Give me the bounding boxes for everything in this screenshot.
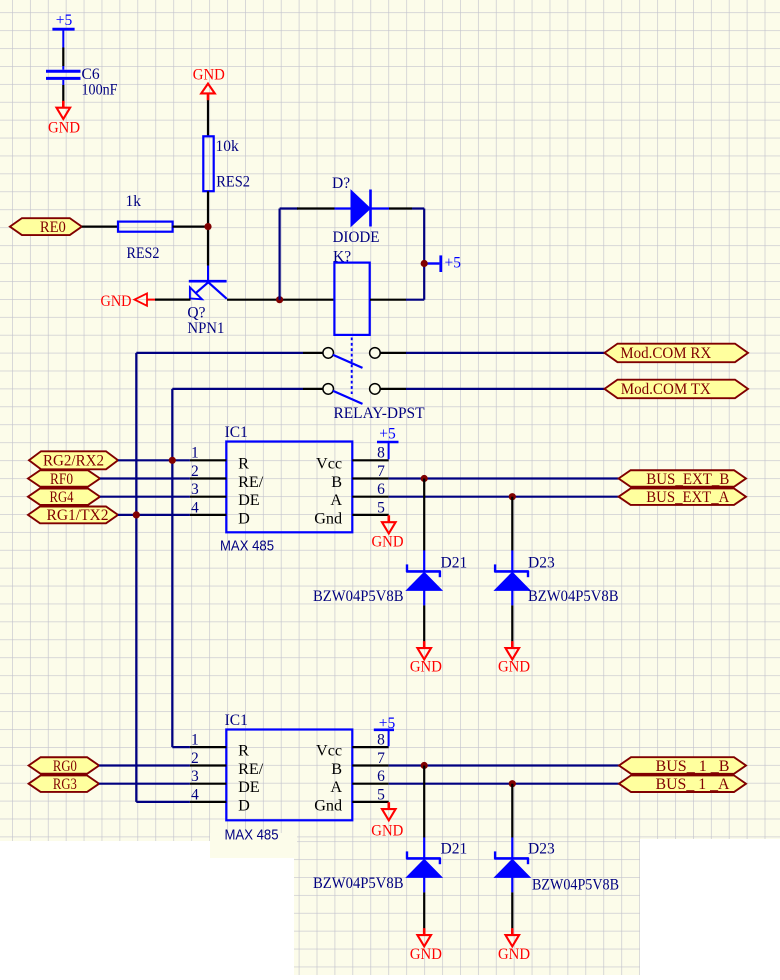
- svg-text:NPN1: NPN1: [187, 320, 224, 337]
- svg-text:D23: D23: [528, 554, 555, 571]
- svg-text:RE/: RE/: [238, 473, 264, 491]
- svg-text:3: 3: [191, 768, 199, 785]
- svg-text:B: B: [331, 473, 342, 491]
- svg-text:D: D: [238, 509, 250, 527]
- svg-text:Gnd: Gnd: [314, 509, 342, 527]
- svg-text:GND: GND: [101, 293, 132, 310]
- svg-text:Mod.COM TX: Mod.COM TX: [621, 381, 711, 398]
- svg-text:IC1: IC1: [225, 424, 248, 441]
- svg-text:D21: D21: [441, 554, 468, 571]
- svg-text:1: 1: [191, 732, 199, 749]
- svg-text:GND: GND: [410, 946, 442, 963]
- svg-text:GND: GND: [498, 946, 530, 963]
- svg-text:A: A: [330, 778, 342, 796]
- svg-text:D?: D?: [332, 175, 350, 192]
- svg-text:C6: C6: [82, 66, 100, 83]
- svg-text:BZW04P5V8B: BZW04P5V8B: [313, 875, 404, 892]
- svg-text:RES2: RES2: [216, 173, 250, 190]
- svg-text:Gnd: Gnd: [314, 796, 342, 814]
- svg-text:Mod.COM RX: Mod.COM RX: [620, 345, 711, 362]
- svg-text:BZW04P5V8B: BZW04P5V8B: [313, 588, 404, 605]
- svg-text:RG0: RG0: [53, 758, 77, 775]
- svg-text:BZW04P5V8B: BZW04P5V8B: [532, 876, 619, 893]
- svg-text:MAX 485: MAX 485: [225, 828, 279, 844]
- svg-text:5: 5: [377, 499, 385, 516]
- svg-text:DIODE: DIODE: [333, 229, 380, 246]
- svg-text:RES2: RES2: [127, 245, 160, 262]
- svg-text:4: 4: [191, 499, 199, 516]
- svg-text:RF0: RF0: [50, 471, 73, 488]
- svg-text:D: D: [238, 796, 250, 814]
- svg-text:GND: GND: [498, 659, 530, 676]
- svg-text:6: 6: [377, 481, 385, 498]
- svg-text:GND: GND: [193, 67, 225, 84]
- svg-text:BUS_EXT_B: BUS_EXT_B: [646, 471, 729, 488]
- svg-text:IC1: IC1: [225, 712, 248, 729]
- svg-text:RG3: RG3: [53, 776, 77, 793]
- svg-text:DE: DE: [238, 491, 260, 509]
- svg-text:8: 8: [377, 732, 385, 749]
- svg-text:2: 2: [191, 750, 199, 767]
- svg-text:4: 4: [191, 786, 199, 803]
- svg-text:1: 1: [191, 445, 199, 462]
- svg-text:8: 8: [377, 445, 385, 462]
- svg-text:MAX 485: MAX 485: [220, 539, 274, 555]
- svg-text:R: R: [238, 742, 249, 760]
- svg-text:RE/: RE/: [238, 760, 264, 778]
- svg-text:5: 5: [377, 786, 385, 803]
- svg-text:GND: GND: [410, 659, 442, 676]
- svg-text:RE0: RE0: [40, 219, 66, 236]
- svg-text:A: A: [330, 491, 342, 509]
- svg-text:D21: D21: [441, 840, 468, 857]
- svg-text:7: 7: [377, 463, 385, 480]
- svg-text:GND: GND: [371, 822, 403, 839]
- svg-text:3: 3: [191, 481, 199, 498]
- svg-text:100nF: 100nF: [82, 81, 118, 98]
- svg-text:BUS_ 1 _A: BUS_ 1 _A: [656, 776, 731, 793]
- svg-text:RG1/TX2: RG1/TX2: [47, 507, 109, 524]
- svg-text:GND: GND: [372, 533, 404, 550]
- svg-text:RELAY-DPST: RELAY-DPST: [334, 405, 426, 422]
- svg-text:D23: D23: [528, 840, 555, 857]
- svg-text:R: R: [238, 455, 249, 473]
- svg-text:+5: +5: [445, 254, 462, 271]
- svg-text:RG2/RX2: RG2/RX2: [43, 453, 104, 470]
- svg-text:6: 6: [377, 768, 385, 785]
- svg-text:BUS_EXT_A: BUS_EXT_A: [646, 489, 730, 506]
- svg-text:Vcc: Vcc: [316, 455, 342, 473]
- svg-text:+5: +5: [56, 12, 73, 29]
- svg-text:2: 2: [191, 463, 199, 480]
- svg-text:7: 7: [377, 750, 385, 767]
- svg-text:Q?: Q?: [187, 304, 205, 321]
- svg-text:Vcc: Vcc: [316, 742, 342, 760]
- svg-text:DE: DE: [238, 778, 260, 796]
- svg-text:10k: 10k: [216, 138, 240, 155]
- svg-text:BZW04P5V8B: BZW04P5V8B: [528, 588, 619, 605]
- svg-text:1k: 1k: [126, 193, 142, 210]
- svg-text:+5: +5: [379, 425, 396, 442]
- svg-text:BUS_ 1 _B: BUS_ 1 _B: [656, 758, 730, 775]
- svg-text:GND: GND: [48, 119, 80, 136]
- svg-text:B: B: [331, 760, 342, 778]
- svg-text:RG4: RG4: [50, 489, 74, 506]
